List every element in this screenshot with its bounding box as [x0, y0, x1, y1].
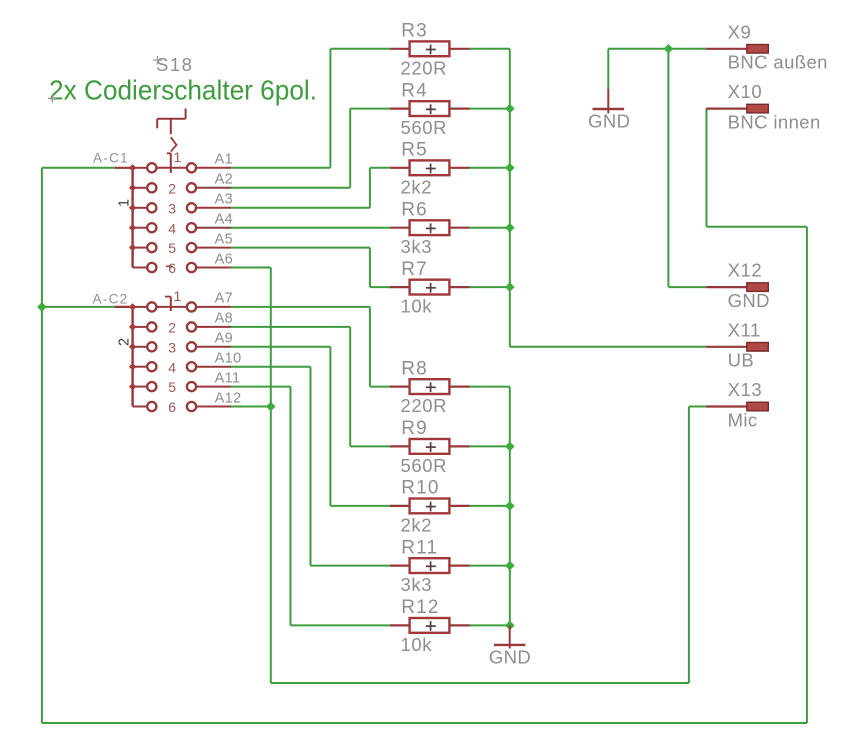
switch A-C2 contact 1 left stub	[133, 306, 147, 308]
node junction UB at R7	[505, 282, 515, 292]
svg-text:220R: 220R	[401, 57, 448, 78]
switch A-C2 contact 6 left stub	[133, 406, 147, 408]
svg-text:R6: R6	[401, 200, 428, 221]
switch A-C1 contact 4 right pin circle	[187, 223, 196, 232]
wire net A8 horizontal from pin	[231, 326, 350, 328]
svg-text:6: 6	[168, 399, 176, 415]
connector X10 pin	[706, 107, 747, 109]
switch A-C1 contact 5 right pin circle	[187, 243, 196, 252]
switch A-C1 contact 4 left pin circle	[147, 223, 156, 232]
resistor R12	[390, 618, 470, 633]
wire net A3 horizontal to R5 pin	[370, 167, 390, 169]
wire net A4 straight to R6 pin	[231, 227, 390, 229]
connector X9 flag	[747, 45, 769, 54]
switch A-C1 contact 6 right pin circle	[187, 263, 196, 272]
switch A-C2 contact 2 right pin circle	[187, 322, 196, 331]
switch A-C2 contact 2 left stub	[133, 326, 147, 328]
svg-text:A-C2: A-C2	[93, 291, 129, 306]
switch A-C2 contact 1 right pin line	[196, 306, 231, 308]
svg-text:X9: X9	[728, 21, 752, 42]
svg-text:4: 4	[168, 359, 176, 375]
wire net UB: R6 right stub	[470, 227, 510, 229]
switch A-C1 contact 3 right pin line	[196, 207, 231, 209]
svg-text:R12: R12	[401, 597, 439, 618]
switch A-C1 contact 6 left stub	[133, 267, 147, 269]
svg-text:220R: 220R	[401, 395, 448, 416]
switch A-C2 contact 4 right pin line	[196, 366, 231, 368]
svg-text:A1: A1	[215, 152, 234, 168]
svg-text:2: 2	[168, 180, 176, 196]
connector X9 pin	[706, 48, 747, 50]
resistor R3	[390, 41, 470, 56]
resistor R6	[390, 220, 470, 235]
switch A-C2 contact 6 right pin line	[196, 406, 231, 408]
resistor R9	[390, 439, 470, 454]
resistor R4	[390, 101, 470, 116]
switch A-C2 contact 1 right pin circle	[187, 302, 196, 311]
svg-text:R3: R3	[401, 21, 428, 42]
node junction Mic at A12	[266, 402, 276, 412]
node junction UB at R6	[505, 223, 515, 233]
node junction UB at R4	[505, 104, 515, 114]
resistor R11	[390, 558, 470, 573]
node A-C1 bus junction row 3	[129, 204, 136, 211]
svg-text:2x Codierschalter 6pol.: 2x Codierschalter 6pol.	[49, 75, 317, 106]
svg-text:2: 2	[168, 320, 176, 336]
wire net A7 vertical down to R8	[369, 307, 371, 387]
resistor R7	[390, 280, 470, 295]
node A-C1 bus junction row 4	[129, 224, 136, 231]
svg-text:A10: A10	[215, 351, 242, 367]
svg-text:3k3: 3k3	[401, 236, 433, 257]
svg-text:R5: R5	[401, 140, 428, 161]
wire net Mic: A6 horizontal from pin	[231, 267, 271, 269]
node A-C1 bus junction row 2	[129, 184, 136, 191]
switch A-C2 contact 6 right pin circle	[187, 402, 196, 411]
wire net GND1: vertical X9 to X12	[667, 49, 669, 287]
node junction BNC-innen at A-C2 common	[37, 302, 47, 312]
wire net A3 horizontal from pin	[231, 207, 370, 209]
switch A-C2 actuator stub	[165, 297, 171, 311]
switch A-C1 contact 2 left pin circle	[147, 183, 156, 192]
svg-text:X11: X11	[728, 319, 761, 340]
wire net A11 horizontal from pin	[231, 386, 291, 388]
wire net GND1: X9 row horizontal	[608, 48, 706, 50]
svg-text:A4: A4	[215, 212, 234, 228]
svg-text:A11: A11	[215, 370, 241, 386]
switch A-C2 contact 3 right pin circle	[187, 342, 196, 351]
wire net BNC-innen: branch to A-C2 common row 1	[42, 306, 114, 308]
wire net A2 horizontal from pin	[231, 187, 350, 189]
wire net A10 vertical down to R11	[310, 367, 312, 566]
switch A-C2 contact 4 left stub	[133, 366, 147, 368]
svg-text:4: 4	[168, 220, 176, 236]
switch A-C1 contact 1 right pin circle	[187, 163, 196, 172]
node A-C1 bus junction row 5	[129, 244, 136, 251]
title origin cross	[48, 94, 57, 103]
switch A-C2 contact 5 right pin line	[196, 386, 231, 388]
svg-text:5: 5	[168, 379, 176, 395]
wire net A9 horizontal from pin	[231, 346, 330, 348]
svg-text:3: 3	[168, 339, 176, 355]
svg-text:10k: 10k	[401, 296, 433, 317]
svg-text:X12: X12	[728, 260, 763, 281]
switch A-C1 contact 5 right pin line	[196, 247, 231, 249]
switch A-C2 contact 5 left pin circle	[147, 382, 156, 391]
switch A-C2 contact 2 right pin line	[196, 326, 231, 328]
S18 origin cross	[153, 56, 162, 65]
switch A-C1 contact 6 right pin line	[196, 267, 231, 269]
switch A-C2 contact 3 left stub	[133, 346, 147, 348]
svg-text:Mic: Mic	[728, 409, 758, 430]
connector X13 pin	[706, 405, 747, 407]
connector X10 flag	[747, 104, 769, 113]
wire net A10 horizontal from pin	[231, 366, 311, 368]
svg-text:GND: GND	[489, 647, 531, 668]
svg-text:560R: 560R	[401, 455, 448, 476]
wire net BNC-innen: bottom horizontal run	[42, 722, 807, 724]
svg-text:3: 3	[168, 200, 176, 216]
svg-text:BNC innen: BNC innen	[728, 111, 821, 132]
wire net A9 horizontal to R10 pin	[330, 505, 390, 507]
connector X13 flag	[747, 402, 769, 411]
wire net A3 vertical up to R5	[369, 168, 371, 208]
svg-text:X13: X13	[728, 379, 763, 400]
node junction GND2 at R9	[505, 442, 515, 452]
switch A-C1 contact 5 left pin circle	[147, 243, 156, 252]
svg-text:A3: A3	[215, 192, 234, 208]
svg-text:A2: A2	[215, 172, 234, 188]
wire net UB: right resistor bus vertical R3-R7	[509, 49, 511, 347]
svg-text:3k3: 3k3	[401, 574, 433, 595]
svg-text:R10: R10	[401, 478, 439, 499]
switch A-C1 contact 2 right pin circle	[187, 183, 196, 192]
wire net UB: R4 right stub	[470, 108, 510, 110]
wire net GND2: bus vertical R8-R12	[509, 387, 511, 626]
node junction GND1 at X9 row	[664, 44, 674, 54]
node A-C2 bus junction row 4	[129, 363, 136, 370]
switch A-C1 contact 5 left stub	[133, 247, 147, 249]
switch A-C2 contact 2 left pin circle	[147, 322, 156, 331]
wire net A10 horizontal to R11 pin	[311, 565, 391, 567]
wire net A2 horizontal to R4 pin	[350, 108, 390, 110]
svg-text:1: 1	[174, 288, 182, 304]
wire net A9 vertical down to R10	[329, 347, 331, 506]
wire net Mic: bottom horizontal	[271, 682, 689, 684]
switch A-C2 contact 3 left pin circle	[147, 342, 156, 351]
wire net A7 horizontal to R8 pin	[370, 386, 390, 388]
svg-text:A7: A7	[215, 291, 234, 307]
svg-text:R8: R8	[401, 358, 428, 379]
wire net BNC-innen: horizontal to X10 column	[707, 226, 807, 228]
svg-text:A12: A12	[215, 390, 242, 406]
switch gate A-C1 common pin	[114, 167, 132, 169]
switch A-C2 closed contact line position 1	[157, 306, 187, 308]
switch gate A-C2 common pin	[114, 306, 132, 308]
wire net A1 horizontal from pin	[231, 167, 330, 169]
wire net GND2: R9 right stub	[470, 445, 510, 447]
wire net BNC-innen: A-C1 common row 1 to left bus	[42, 167, 114, 169]
switch A-C1 contact 3 left stub	[133, 207, 147, 209]
switch A-C1 closed contact line position 1	[157, 167, 187, 169]
wire net UB: horizontal to X11 pin	[510, 346, 706, 348]
wire net GND2: R10 right stub	[470, 505, 510, 507]
switch A-C1 pin 6 origin tick	[166, 265, 173, 267]
wire net GND1: horizontal to X12 pin	[668, 286, 706, 288]
switch A-C1 contact 4 right pin line	[196, 227, 231, 229]
wire net A5 horizontal from pin	[231, 247, 370, 249]
wire net Mic: long vertical A6/A12	[270, 268, 272, 684]
svg-text:S18: S18	[156, 54, 193, 75]
svg-text:GND: GND	[728, 290, 770, 311]
switch A-C1 contact 3 left pin circle	[147, 203, 156, 212]
svg-text:A6: A6	[215, 251, 234, 267]
switch A-C1 contact 1 left pin circle	[147, 163, 156, 172]
svg-text:2k2: 2k2	[401, 514, 433, 535]
switch A-C1 contact 1 right pin line	[196, 167, 231, 169]
switch A-C1 contact 3 right pin circle	[187, 203, 196, 212]
wire net A5 vertical down to R7	[369, 248, 371, 288]
connector X12 pin	[706, 286, 747, 288]
switch A-C2 contact 5 right pin circle	[187, 382, 196, 391]
wire net Mic: horizontal to X13 pin	[689, 406, 706, 408]
node junction GND2 at R10	[505, 501, 515, 511]
wire net A1 vertical up to R3	[329, 49, 331, 168]
svg-text:BNC außen: BNC außen	[728, 52, 828, 73]
resistor R8	[390, 379, 470, 394]
svg-text:R4: R4	[401, 80, 428, 101]
node A-C2 bus junction row 5	[129, 383, 136, 390]
switch A-C1 contact 4 left stub	[133, 227, 147, 229]
wire net A11 horizontal to R12 pin	[291, 624, 391, 626]
node A-C2 bus junction row 3	[129, 343, 136, 350]
wire net GND1: drop to GND symbol	[607, 49, 609, 89]
switch A-C2 contact 1 left pin circle	[147, 302, 156, 311]
wire net GND2: R12 right stub	[470, 624, 510, 626]
switch S18 actuator linkage	[157, 109, 185, 174]
svg-text:10k: 10k	[401, 634, 433, 655]
switch A-C2 contact 5 left stub	[133, 386, 147, 388]
svg-text:1: 1	[174, 149, 182, 165]
wire net A7 horizontal from pin	[231, 306, 370, 308]
svg-text:1: 1	[116, 199, 132, 207]
wire net A11 vertical down to R12	[290, 387, 292, 626]
resistor R5	[390, 160, 470, 175]
switch A-C2 contact 4 left pin circle	[147, 362, 156, 371]
wire net A8 horizontal to R9 pin	[350, 445, 390, 447]
svg-text:6: 6	[168, 260, 176, 276]
connector X11 flag	[747, 343, 769, 352]
svg-text:R7: R7	[401, 259, 428, 280]
wire net BNC-innen: left vertical bus	[41, 168, 43, 723]
node A-C2 bus junction row 2	[129, 323, 136, 330]
wire net Mic: A12 horizontal from pin	[231, 406, 271, 408]
wire net Mic: vertical up to X13	[688, 407, 690, 684]
ground symbol GND (top, at X9 net)	[593, 89, 625, 113]
wire net A8 vertical down to R9	[349, 327, 351, 447]
wire net A5 horizontal to R7 pin	[370, 286, 390, 288]
ground symbol GND (bottom, at R12 net)	[494, 625, 525, 648]
switch A-C1 contact 6 left pin circle	[147, 263, 156, 272]
switch A-C1 contact 2 right pin line	[196, 187, 231, 189]
wire net BNC-innen: right vertical run	[806, 227, 808, 723]
wire net A2 vertical up to R4	[349, 109, 351, 188]
svg-text:A5: A5	[215, 231, 234, 247]
node junction GND2 at R11	[505, 561, 515, 571]
switch A-C2 contact 4 right pin circle	[187, 362, 196, 371]
svg-text:GND: GND	[588, 110, 630, 131]
wire net UB: R7 right stub	[470, 286, 510, 288]
node junction UB at R5	[505, 163, 515, 173]
svg-text:A8: A8	[215, 311, 234, 327]
connector X11 pin	[706, 346, 747, 348]
wire net UB: R5 right stub	[470, 167, 510, 169]
svg-text:A-C1: A-C1	[93, 151, 129, 166]
switch A-C2 contact 3 right pin line	[196, 346, 231, 348]
wire net GND2: R8 right to bus corner	[470, 386, 510, 388]
svg-text:560R: 560R	[401, 117, 448, 138]
resistor R10	[390, 499, 470, 514]
node A-C2 bus junction row 1	[129, 303, 136, 310]
svg-text:X10: X10	[728, 81, 763, 102]
wire net A1 horizontal to R3 pin	[330, 48, 390, 50]
node A-C1 bus junction row 1	[129, 164, 136, 171]
connector X12 flag	[747, 283, 769, 292]
svg-text:A9: A9	[215, 331, 234, 347]
switch A-C2 contact 6 left pin circle	[147, 402, 156, 411]
wire net GND2: R11 right stub	[470, 565, 510, 567]
switch gate A-C1 bus	[131, 168, 133, 268]
wire net UB: R3 right to bus corner	[470, 48, 510, 50]
svg-text:5: 5	[168, 240, 176, 256]
node junction GND2 at R12 / GND symbol	[505, 621, 515, 631]
svg-text:R11: R11	[401, 537, 438, 558]
svg-text:R9: R9	[401, 418, 428, 439]
svg-text:UB: UB	[728, 350, 755, 371]
switch A-C1 contact 2 left stub	[133, 187, 147, 189]
svg-text:2k2: 2k2	[401, 176, 433, 197]
wire net BNC-innen: vertical drop from X10 pin	[706, 109, 708, 227]
switch A-C1 contact 1 left stub	[133, 167, 147, 169]
svg-text:2: 2	[116, 338, 132, 346]
switch gate A-C2 bus	[131, 307, 133, 407]
